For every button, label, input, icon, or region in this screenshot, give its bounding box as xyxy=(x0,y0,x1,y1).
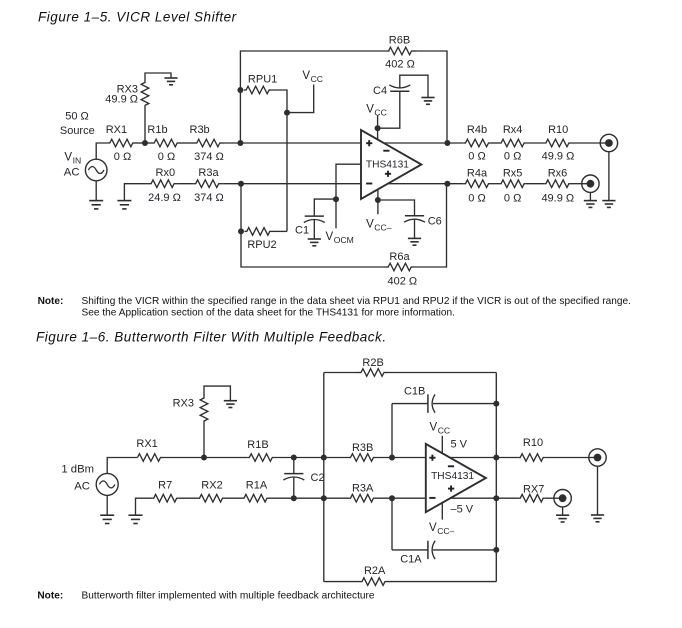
svg-text:THS4131: THS4131 xyxy=(431,471,474,482)
op-amp U2 minus output xyxy=(448,465,454,467)
svg-text:5 V: 5 V xyxy=(451,438,468,450)
svg-text:RPU2: RPU2 xyxy=(247,239,276,251)
node N2 xyxy=(237,140,243,146)
label VIN xyxy=(64,152,81,166)
wire xyxy=(96,143,109,159)
label R6B xyxy=(389,34,410,46)
svg-text:0 Ω: 0 Ω xyxy=(158,151,175,163)
op-amp U2 plus output xyxy=(448,486,454,492)
op-amp U2 THS4131 xyxy=(426,444,486,512)
label Rx6 value xyxy=(541,193,574,205)
ground xyxy=(591,515,604,522)
label C6 xyxy=(428,216,442,228)
resistor R1b xyxy=(152,139,182,147)
node FB1 xyxy=(493,401,499,407)
label Rx0 xyxy=(156,167,176,179)
node V1 top xyxy=(321,455,327,461)
node N3 xyxy=(238,181,244,187)
connector J3 xyxy=(589,449,606,466)
wire xyxy=(391,404,393,458)
svg-text:0 Ω: 0 Ω xyxy=(114,151,131,163)
label VCC- f6 xyxy=(429,522,455,536)
label VCC xyxy=(302,70,323,84)
wire xyxy=(490,183,499,185)
svg-text:R10: R10 xyxy=(523,437,543,449)
wire xyxy=(203,421,205,458)
node FB4 xyxy=(493,547,499,553)
svg-text:R3B: R3B xyxy=(352,442,373,454)
ground xyxy=(224,401,237,408)
label AC 2 xyxy=(74,481,90,493)
wire xyxy=(271,90,287,231)
label C1A xyxy=(400,553,422,565)
label RPU1 xyxy=(248,73,277,85)
capacitor C1 xyxy=(304,216,325,222)
resistor Rx0 xyxy=(147,180,177,188)
ground xyxy=(117,201,131,209)
svg-text:C4: C4 xyxy=(373,85,387,97)
label R1b xyxy=(147,124,167,136)
svg-text:R4a: R4a xyxy=(467,168,488,180)
svg-text:0 Ω: 0 Ω xyxy=(504,193,521,205)
capacitor C1A xyxy=(428,541,435,559)
svg-text:374 Ω: 374 Ω xyxy=(194,151,224,163)
label RPU2 xyxy=(247,239,276,251)
svg-text:R6a: R6a xyxy=(389,251,410,263)
node VCC- pin xyxy=(375,197,381,203)
note 2 line xyxy=(82,590,375,601)
svg-text:R1A: R1A xyxy=(246,480,268,492)
svg-text:0 Ω: 0 Ω xyxy=(468,151,485,163)
wire xyxy=(392,549,428,551)
wire xyxy=(375,497,426,499)
svg-text:Rx4: Rx4 xyxy=(503,124,523,136)
wire xyxy=(106,495,108,515)
resistor RX2 xyxy=(198,494,224,502)
resistor R1A xyxy=(243,494,269,502)
label R3B xyxy=(352,442,373,454)
node C1A tap xyxy=(389,495,395,501)
svg-text:RPU1: RPU1 xyxy=(248,73,277,85)
capacitor C1B xyxy=(428,394,435,412)
svg-text:R3a: R3a xyxy=(198,167,219,179)
wire xyxy=(589,192,591,201)
svg-text:0 Ω: 0 Ω xyxy=(468,193,485,205)
svg-text:See the Application section of: See the Application section of the data … xyxy=(82,308,455,319)
svg-text:V: V xyxy=(366,218,374,230)
wire xyxy=(392,403,428,405)
svg-text:R10: R10 xyxy=(548,124,568,136)
resistor R2A xyxy=(361,578,387,586)
label Rx5 value xyxy=(504,193,521,205)
svg-text:R3b: R3b xyxy=(190,124,210,136)
svg-text:V: V xyxy=(326,231,334,243)
svg-text:R4b: R4b xyxy=(467,124,487,136)
wire xyxy=(526,142,544,144)
wire xyxy=(241,184,386,267)
wire xyxy=(387,581,497,583)
wire xyxy=(384,142,464,144)
ground xyxy=(421,98,434,105)
svg-text:R6B: R6B xyxy=(389,34,410,46)
svg-text:49.9 Ω: 49.9 Ω xyxy=(542,151,575,163)
label R10 xyxy=(548,124,568,136)
ground xyxy=(584,201,597,208)
label R6B value xyxy=(385,58,415,70)
svg-text:24.9 Ω: 24.9 Ω xyxy=(148,192,181,204)
svg-text:CC–: CC– xyxy=(437,526,454,536)
resistor R1B xyxy=(248,454,274,462)
node VOCM xyxy=(333,196,339,202)
wire xyxy=(389,372,497,374)
svg-text:RX2: RX2 xyxy=(201,480,222,492)
wire xyxy=(287,85,314,113)
wire xyxy=(136,498,153,515)
wire xyxy=(224,497,243,499)
ground xyxy=(100,515,114,523)
node C2 bottom xyxy=(291,495,297,501)
svg-text:AC: AC xyxy=(74,481,90,493)
wire xyxy=(571,183,583,185)
wire xyxy=(324,372,357,374)
resistor R3a xyxy=(194,180,223,188)
label C1 xyxy=(295,224,309,236)
label R2B xyxy=(362,357,383,369)
wire xyxy=(144,106,146,143)
svg-text:V: V xyxy=(366,104,374,116)
label RX3 xyxy=(117,84,138,96)
svg-text:RX1: RX1 xyxy=(136,438,157,450)
wire xyxy=(182,142,195,144)
svg-text:R3A: R3A xyxy=(352,483,374,495)
label Rx0 value xyxy=(148,192,181,204)
op-amp U1 plus output xyxy=(385,171,391,177)
wire xyxy=(375,457,426,459)
ground xyxy=(602,201,615,208)
wire xyxy=(272,230,287,232)
svg-text:Rx5: Rx5 xyxy=(503,168,523,180)
resistor R7 xyxy=(152,494,178,502)
ground xyxy=(164,78,177,85)
AC source V1 xyxy=(85,159,107,181)
op-amp U2 label xyxy=(431,471,474,482)
connector J2 xyxy=(582,175,599,192)
label VCC- xyxy=(366,218,392,232)
wire xyxy=(95,181,97,201)
wire xyxy=(378,91,400,128)
note 1 line 1 xyxy=(82,296,632,307)
wire xyxy=(545,457,589,459)
svg-text:THS4131: THS4131 xyxy=(366,160,409,171)
label R1A xyxy=(246,480,268,492)
wire xyxy=(269,497,350,499)
svg-text:C2: C2 xyxy=(311,472,325,484)
wire xyxy=(417,51,447,143)
label 1 dBm xyxy=(61,463,94,475)
wire xyxy=(140,142,152,144)
resistor R3A xyxy=(349,494,375,502)
svg-text:CC: CC xyxy=(438,426,450,436)
wire xyxy=(323,373,325,582)
op-amp U2 minus input xyxy=(429,497,435,499)
wire xyxy=(293,458,295,474)
label Rx4 xyxy=(503,124,523,136)
wire xyxy=(490,142,499,144)
node V1 bottom xyxy=(321,495,327,501)
capacitor C4 xyxy=(389,85,410,91)
AC source V2 xyxy=(96,473,118,495)
wire xyxy=(414,219,416,238)
svg-text:V: V xyxy=(429,522,437,534)
wire xyxy=(388,183,464,185)
label RX3 f6 xyxy=(173,397,194,409)
node C1B tap xyxy=(389,455,395,461)
wire xyxy=(451,497,518,499)
node VCC tap xyxy=(284,110,290,116)
svg-text:402 Ω: 402 Ω xyxy=(385,58,415,70)
node VCC pin xyxy=(375,125,381,131)
svg-text:Note:: Note: xyxy=(37,590,63,601)
resistor RX1 f6 xyxy=(138,454,164,462)
op-amp U1 THS4131 xyxy=(361,130,421,199)
wire xyxy=(526,183,544,185)
resistor RPU2 xyxy=(245,228,273,236)
resistor R3B xyxy=(349,454,375,462)
svg-text:CC: CC xyxy=(311,74,323,84)
label R3b xyxy=(190,124,210,136)
resistor RPU1 xyxy=(244,86,272,94)
wire xyxy=(240,51,389,143)
wire xyxy=(314,199,336,216)
label Rx4 value xyxy=(504,151,521,163)
svg-text:RX1: RX1 xyxy=(106,124,127,136)
svg-text:V: V xyxy=(302,70,310,82)
svg-text:CC: CC xyxy=(374,108,386,118)
label R1b value xyxy=(158,151,175,163)
wire xyxy=(313,220,315,239)
label R7 xyxy=(158,480,172,492)
wire xyxy=(336,164,361,228)
node C2 top xyxy=(291,455,297,461)
wire xyxy=(562,507,564,515)
label RX2 xyxy=(201,480,222,492)
label R3b value xyxy=(194,151,224,163)
resistor Rx6 xyxy=(544,180,570,188)
label C1B xyxy=(404,386,425,398)
label R10 value xyxy=(542,151,575,163)
resistor RX3 f6 xyxy=(200,398,208,421)
wire xyxy=(324,581,361,583)
label Rx5 xyxy=(503,168,523,180)
svg-text:0 Ω: 0 Ω xyxy=(504,151,521,163)
svg-text:R2A: R2A xyxy=(364,565,386,577)
svg-text:50 Ω: 50 Ω xyxy=(65,111,89,123)
ground xyxy=(308,239,321,246)
svg-text:C1B: C1B xyxy=(404,386,425,398)
label AC xyxy=(64,167,80,179)
resistor R10 xyxy=(544,139,570,147)
resistor R6a xyxy=(386,263,414,271)
capacitor C2 xyxy=(283,474,304,480)
svg-text:C1: C1 xyxy=(295,224,309,236)
figure 1-5 title xyxy=(38,9,237,24)
connector J4 xyxy=(554,490,571,507)
wire xyxy=(400,75,428,97)
wire xyxy=(124,184,147,201)
svg-text:Source: Source xyxy=(60,125,95,137)
svg-text:AC: AC xyxy=(64,167,80,179)
op-amp U1 minus input xyxy=(366,183,372,185)
wire xyxy=(433,403,496,405)
svg-text:Rx0: Rx0 xyxy=(156,167,176,179)
node FB3 xyxy=(493,495,499,501)
wire xyxy=(377,116,379,140)
wire xyxy=(450,457,519,459)
resistor R3b xyxy=(194,139,224,147)
svg-text:R1B: R1B xyxy=(247,439,268,451)
op-amp U1 minus output xyxy=(383,150,389,152)
wire xyxy=(274,457,349,459)
node RPU1 left xyxy=(237,87,243,93)
svg-text:1 dBm: 1 dBm xyxy=(61,463,94,475)
resistor Rx5 xyxy=(499,180,525,188)
label C2 xyxy=(311,472,325,484)
label RX3 value xyxy=(105,94,138,106)
svg-text:RX7: RX7 xyxy=(523,483,544,495)
svg-text:C6: C6 xyxy=(428,216,442,228)
label RX1 f6 xyxy=(136,438,157,450)
label VCC f6 xyxy=(430,422,451,436)
label RX1 value xyxy=(114,151,131,163)
wire xyxy=(223,183,361,185)
svg-text:Rx6: Rx6 xyxy=(548,168,568,180)
svg-text:V: V xyxy=(64,152,72,164)
wire xyxy=(377,190,379,215)
wire xyxy=(608,152,610,201)
svg-text:CC–: CC– xyxy=(374,222,391,232)
wire xyxy=(545,497,555,499)
svg-text:49.9 Ω: 49.9 Ω xyxy=(105,94,138,106)
label VOCM xyxy=(326,231,354,245)
ground xyxy=(89,201,103,209)
resistor RX1 xyxy=(110,139,140,147)
resistor R4a xyxy=(464,180,490,188)
wire xyxy=(391,498,393,550)
label VCC opamp xyxy=(366,104,387,118)
label R6a value xyxy=(387,276,417,288)
svg-text:OCM: OCM xyxy=(334,235,354,245)
wire xyxy=(433,549,496,551)
label -5V xyxy=(451,503,474,515)
capacitor C6 xyxy=(404,216,425,222)
connector J1 xyxy=(600,134,617,151)
note 1 label xyxy=(38,296,64,307)
op-amp U1 label xyxy=(366,160,409,171)
op-amp U1 plus input xyxy=(366,140,372,146)
wire xyxy=(597,466,599,515)
svg-text:R1b: R1b xyxy=(147,124,167,136)
wire xyxy=(204,386,230,401)
label R1B xyxy=(247,439,268,451)
label R4b xyxy=(467,124,487,136)
wire xyxy=(164,457,248,459)
svg-text:R2B: R2B xyxy=(362,357,383,369)
node N1 xyxy=(142,140,148,146)
wire xyxy=(414,184,447,267)
svg-text:374 Ω: 374 Ω xyxy=(194,192,224,204)
wire xyxy=(107,458,137,474)
ground xyxy=(408,238,421,245)
node out2 xyxy=(444,181,450,187)
figure 1-6 title xyxy=(36,330,387,345)
svg-text:Note:: Note: xyxy=(38,296,64,307)
svg-text:C1A: C1A xyxy=(400,553,422,565)
wire xyxy=(378,200,415,216)
label R3a xyxy=(198,167,219,179)
label 50 ohm xyxy=(65,111,89,123)
resistor R10 f6 xyxy=(519,454,545,462)
wire xyxy=(224,142,361,144)
label R4a xyxy=(467,168,488,180)
svg-text:Figure 1–6. Butterworth Filter: Figure 1–6. Butterworth Filter With Mult… xyxy=(36,330,387,345)
svg-text:402 Ω: 402 Ω xyxy=(387,276,417,288)
wire xyxy=(495,373,497,582)
svg-text:Shifting the VICR within the s: Shifting the VICR within the specified r… xyxy=(82,296,632,307)
label RX7 xyxy=(523,483,544,495)
wire xyxy=(178,497,198,499)
ground xyxy=(129,515,143,523)
wire xyxy=(571,142,601,144)
node out1 xyxy=(444,140,450,146)
svg-text:49.9 Ω: 49.9 Ω xyxy=(541,193,574,205)
label 5V xyxy=(451,438,468,450)
svg-text:V: V xyxy=(430,422,438,434)
svg-text:R7: R7 xyxy=(158,480,172,492)
label R3A xyxy=(352,483,374,495)
label Rx6 xyxy=(548,168,568,180)
node RPU2 left xyxy=(238,228,244,234)
label Source xyxy=(60,125,95,137)
node N4 xyxy=(201,455,207,461)
wire xyxy=(441,503,443,520)
note 2 label xyxy=(37,590,63,601)
svg-text:Butterworth filter implemented: Butterworth filter implemented with mult… xyxy=(82,590,375,601)
node FB2 xyxy=(493,455,499,461)
resistor Rx4 xyxy=(499,139,525,147)
svg-text:–5 V: –5 V xyxy=(451,503,474,515)
resistor R6B xyxy=(389,47,418,55)
resistor RX7 xyxy=(519,494,545,502)
resistor R4b xyxy=(464,139,490,147)
label R2A xyxy=(364,565,386,577)
wire xyxy=(441,436,443,453)
wire xyxy=(145,73,171,82)
note 1 line 2 xyxy=(82,308,455,319)
ground xyxy=(556,515,569,522)
label RX1 xyxy=(106,124,127,136)
label R4b value xyxy=(468,151,485,163)
svg-text:Figure 1–5. VICR Level Shifter: Figure 1–5. VICR Level Shifter xyxy=(38,9,237,24)
label R6a xyxy=(389,251,410,263)
resistor R2B xyxy=(357,369,389,377)
svg-text:IN: IN xyxy=(73,156,82,166)
resistor RX3 xyxy=(141,82,149,106)
label R3a value xyxy=(194,192,224,204)
label C4 xyxy=(373,85,387,97)
label R4a value xyxy=(468,193,485,205)
label R10 f6 xyxy=(523,437,543,449)
wire xyxy=(293,477,295,498)
